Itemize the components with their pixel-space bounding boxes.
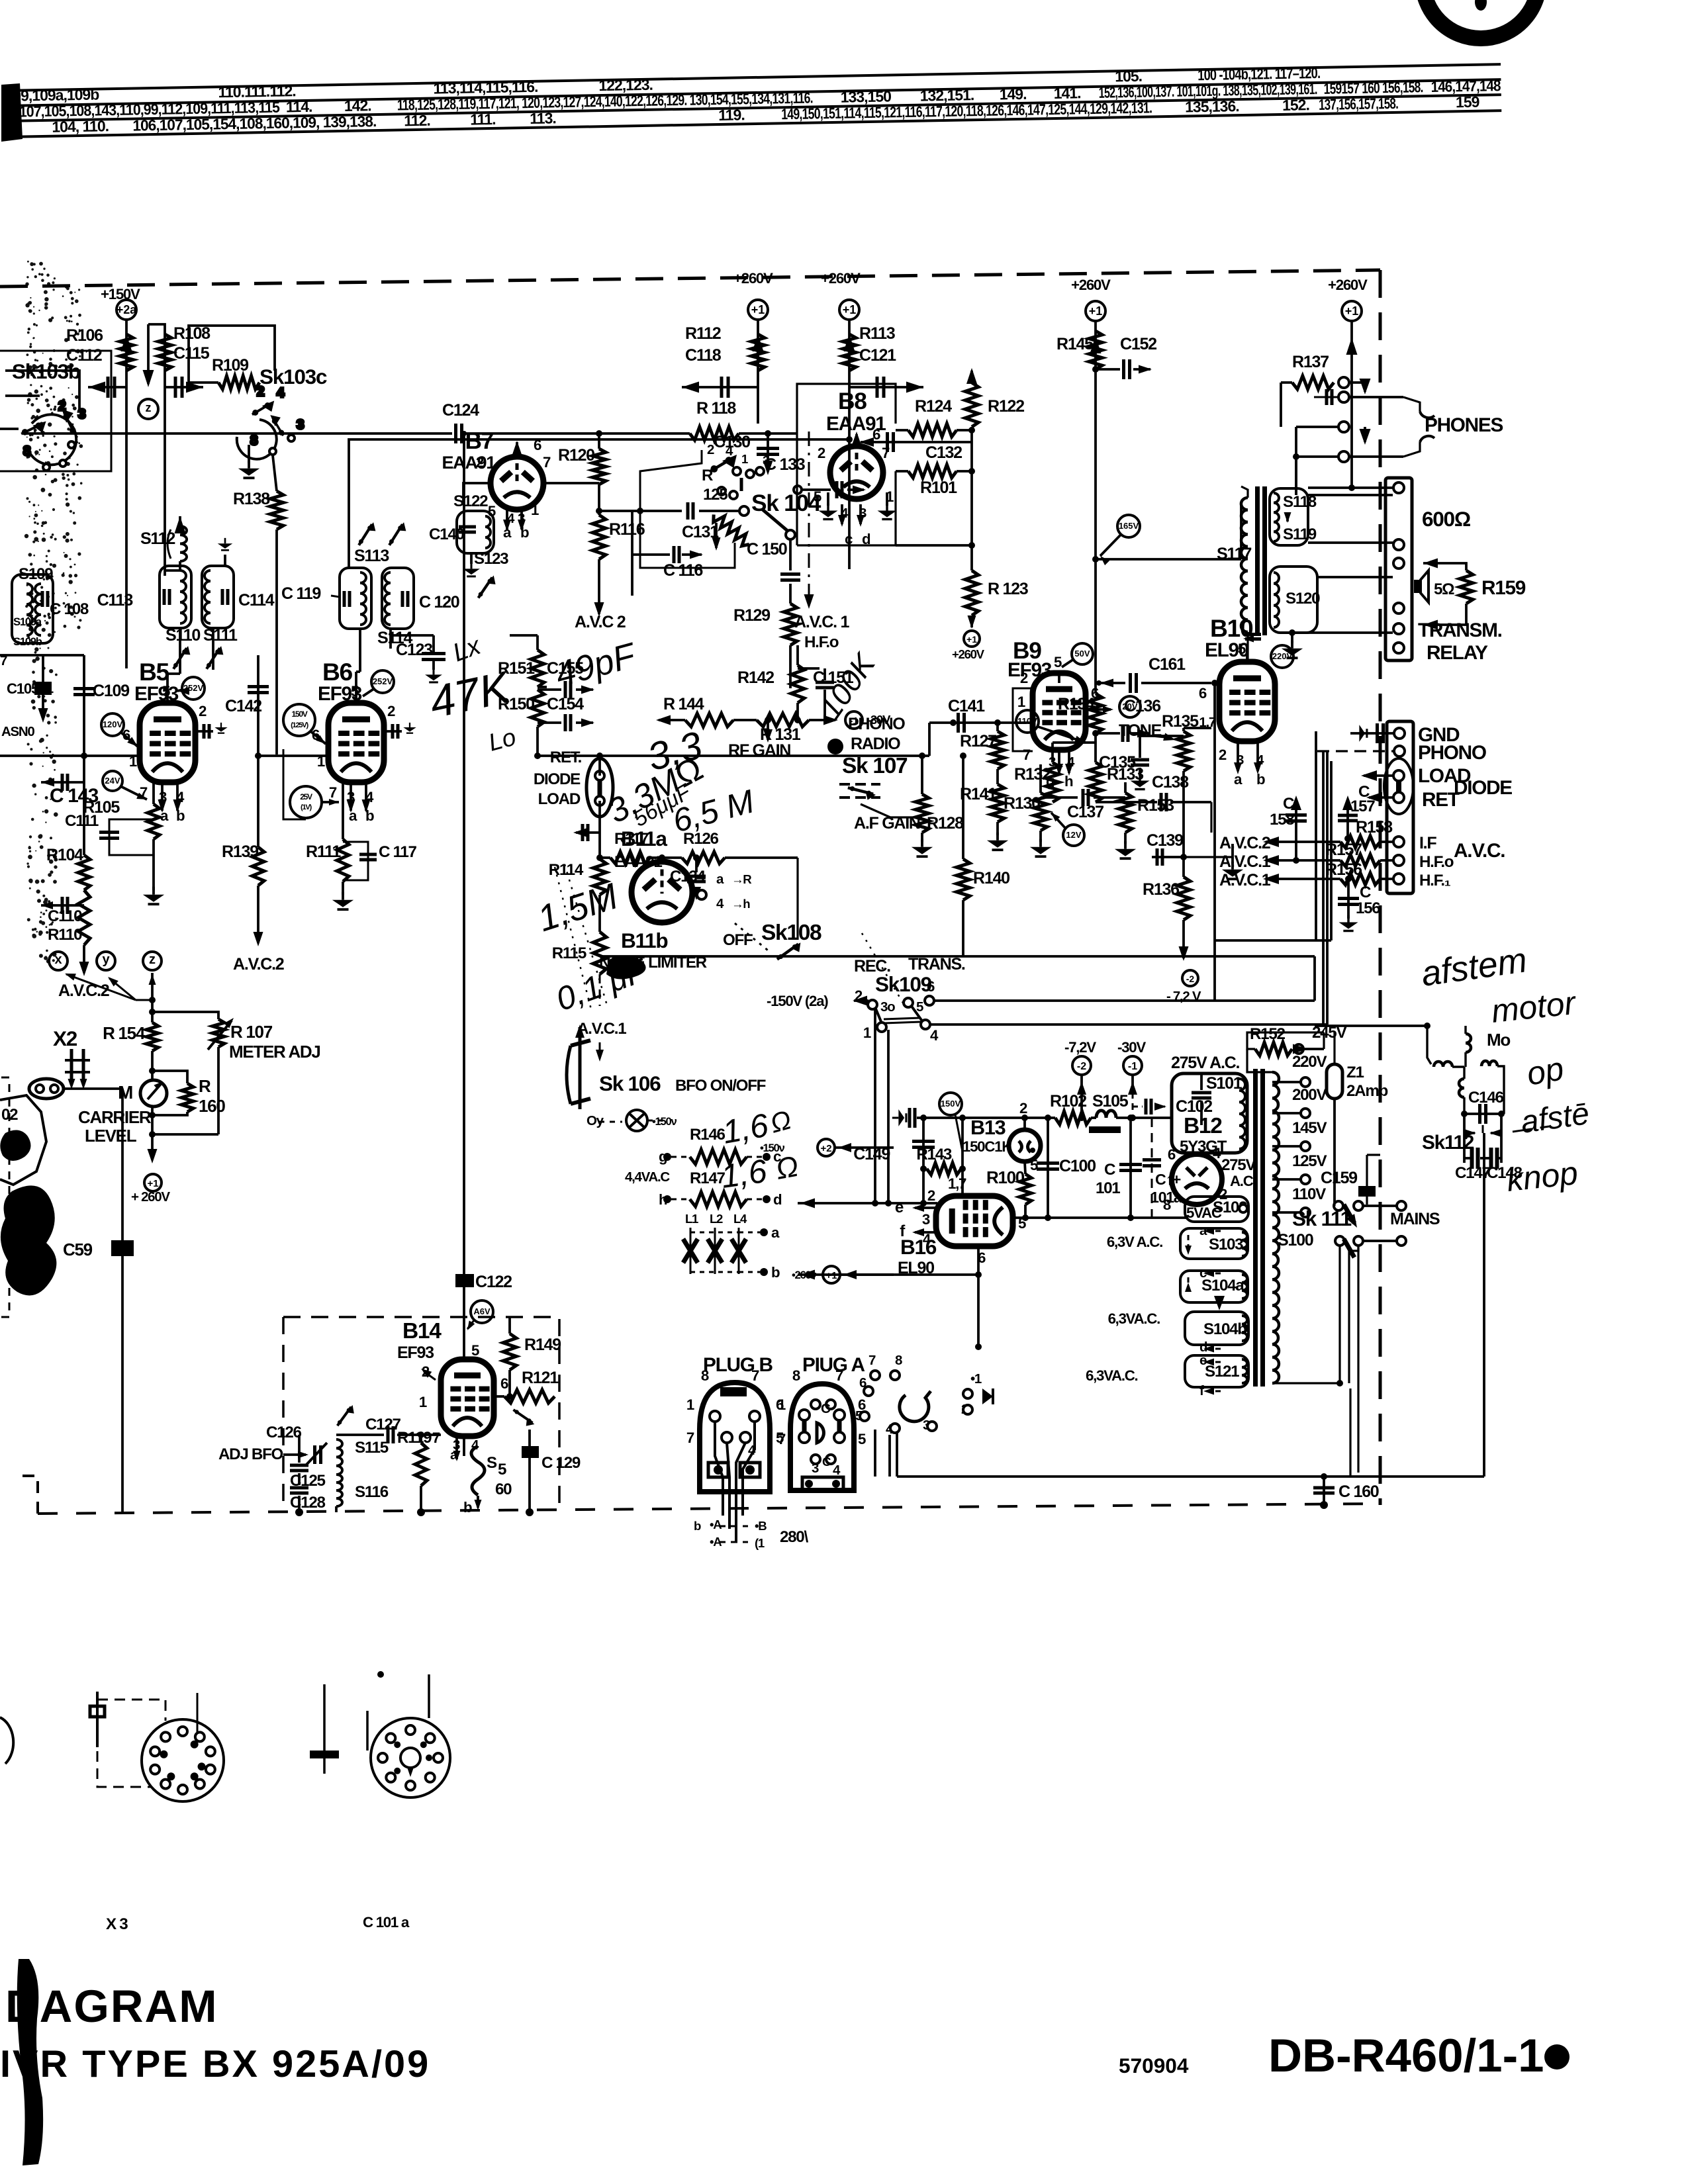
svg-text:MAINS: MAINS <box>1390 1210 1440 1228</box>
svg-text:2Amp: 2Amp <box>1346 1082 1388 1100</box>
svg-text:•150ν: •150ν <box>652 1115 677 1128</box>
svg-text:C 119: C 119 <box>281 584 321 603</box>
svg-text:6,3V A.C.: 6,3V A.C. <box>1107 1234 1162 1250</box>
svg-text:CARRIER: CARRIER <box>78 1107 152 1127</box>
voltage circle 120V at B5 <box>101 713 124 736</box>
svg-text:C126: C126 <box>266 1424 301 1441</box>
svg-text:8: 8 <box>1163 1197 1171 1213</box>
coupling cap at B10 plate <box>1245 633 1261 636</box>
svg-text:152.: 152. <box>1282 96 1309 114</box>
resistor R109 <box>218 376 259 389</box>
svg-text:S122: S122 <box>453 492 488 510</box>
chassis dashed border right <box>1379 270 1382 1505</box>
svg-text:C128: C128 <box>290 1494 325 1512</box>
resistor R141 <box>991 784 1004 822</box>
voltage circle 12V <box>1063 825 1084 846</box>
svg-text:150V: 150V <box>291 709 307 719</box>
pointer dash to Sk112 <box>1513 1126 1549 1132</box>
svg-text:EAA91: EAA91 <box>442 453 496 473</box>
svg-text:S100: S100 <box>1278 1231 1313 1250</box>
svg-text:+2: +2 <box>820 1143 831 1154</box>
resistor R106 <box>120 334 133 371</box>
svg-text:C146: C146 <box>1468 1089 1503 1107</box>
svg-text:M: M <box>118 1082 132 1103</box>
svg-text:C139: C139 <box>1147 831 1184 850</box>
svg-text:5: 5 <box>814 488 821 505</box>
svg-text:C 129: C 129 <box>541 1454 581 1472</box>
B16 screen wire down pin6 <box>977 1247 980 1275</box>
svg-text:6,3VA.C.: 6,3VA.C. <box>1108 1310 1160 1327</box>
svg-text:→R: →R <box>731 872 752 886</box>
B8 enclosure box <box>797 384 896 545</box>
Sk109 wire right top <box>933 999 1315 1002</box>
phones contact 4 <box>1338 451 1349 462</box>
svg-text:R152: R152 <box>1250 1025 1285 1043</box>
capacitor C115 <box>165 386 203 388</box>
chassis border bottom-left corner <box>20 1476 38 1514</box>
wire +150V rail down <box>125 320 128 668</box>
wire R150 to diode load row <box>536 727 539 756</box>
svg-text:1: 1 <box>1017 694 1025 710</box>
B11b side contacts <box>697 890 706 899</box>
B6 plate top wires <box>355 672 357 704</box>
svg-text:2: 2 <box>927 1187 935 1204</box>
svg-text:+260V: +260V <box>1071 277 1111 293</box>
svg-text:C127: C127 <box>365 1416 400 1433</box>
switch Sk104 contact cluster <box>710 449 795 539</box>
rotary switch Sk103b <box>21 398 85 471</box>
svg-text:C 160: C 160 <box>1338 1482 1379 1501</box>
ground cap left of supply rail <box>892 1109 906 1126</box>
svg-text:(1: (1 <box>755 1536 765 1550</box>
tube B13 stabilizer <box>1009 1130 1041 1161</box>
svg-text:C: C <box>1360 884 1371 901</box>
svg-text:8: 8 <box>250 433 258 448</box>
svg-text:TRANS.: TRANS. <box>908 955 965 974</box>
svg-text:Sk 106: Sk 106 <box>599 1071 661 1095</box>
S117 wires <box>1241 486 1248 498</box>
svg-text:(125V): (125V) <box>291 721 308 729</box>
svg-text:b: b <box>694 1519 701 1533</box>
capacitor C126 <box>290 1464 308 1467</box>
svg-text:S121: S121 <box>1205 1363 1239 1381</box>
secondary S104a box <box>1180 1271 1248 1302</box>
svg-text:-150V (2a): -150V (2a) <box>767 993 828 1009</box>
transformer bottom wire <box>1272 1382 1340 1384</box>
svg-text:C 120: C 120 <box>419 593 459 612</box>
svg-text:112.: 112. <box>404 112 430 130</box>
secondary S103 box <box>1180 1228 1248 1259</box>
tube B14 <box>441 1359 494 1436</box>
svg-text:A.V.C 2: A.V.C 2 <box>575 613 626 631</box>
capacitor C112 <box>88 386 126 388</box>
left artifacts smudge column <box>24 261 83 964</box>
svg-text:2: 2 <box>257 384 264 399</box>
svg-text:6: 6 <box>1199 685 1207 702</box>
svg-text:+1: +1 <box>751 303 765 316</box>
svg-text:5: 5 <box>1030 1157 1038 1173</box>
svg-text:A.V.C.2: A.V.C.2 <box>58 981 109 1000</box>
wire B7 pin7 to R116 <box>544 482 599 484</box>
svg-text:C123: C123 <box>396 641 433 659</box>
capacitor C127 symbol <box>336 1433 384 1436</box>
svg-text:R143: R143 <box>916 1146 951 1163</box>
Sk104 outline box <box>640 450 702 528</box>
svg-text:5: 5 <box>162 683 170 700</box>
svg-text:6: 6 <box>534 437 541 453</box>
plug A D mark <box>817 1423 823 1443</box>
svg-text:S115: S115 <box>355 1439 389 1457</box>
wire top of R151 to C124 line <box>536 635 539 650</box>
rotary switch Sk103c <box>237 384 304 459</box>
svg-text:d: d <box>773 1191 782 1208</box>
svg-text:-30V: -30V <box>1117 1039 1146 1056</box>
svg-text:159: 159 <box>1456 93 1479 111</box>
svg-text:S123: S123 <box>474 550 508 568</box>
plug B pins <box>710 1411 720 1422</box>
svg-text:4: 4 <box>930 1027 939 1044</box>
svg-text:C124: C124 <box>442 401 479 420</box>
svg-text:B12: B12 <box>1184 1114 1222 1138</box>
terminal -30V small <box>845 711 863 729</box>
B11 wires <box>661 858 663 862</box>
svg-text:B11a: B11a <box>621 827 667 850</box>
LOAD RET arrows <box>1364 774 1393 777</box>
relay terminal strip <box>1385 478 1412 660</box>
svg-text:C118: C118 <box>685 346 722 365</box>
small arc far left bottom <box>0 1717 13 1764</box>
S120 ground <box>1291 633 1293 643</box>
svg-text:DB-R460/1-1: DB-R460/1-1 <box>1268 2029 1544 2081</box>
LOAD RET oval <box>1384 758 1413 814</box>
svg-text:b: b <box>463 1499 472 1516</box>
wire R135 top to B10 grid <box>1182 728 1185 731</box>
switch arrow below S123 <box>478 573 497 600</box>
svg-text:B7: B7 <box>465 428 493 454</box>
terminal circle z <box>138 399 158 419</box>
svg-text:R106: R106 <box>66 326 103 345</box>
svg-text:A.C.: A.C. <box>1230 1173 1256 1189</box>
svg-text:h: h <box>1064 773 1073 790</box>
svg-text:c: c <box>845 531 853 547</box>
svg-text:LOAD: LOAD <box>538 790 581 808</box>
resistor R138 <box>270 491 283 529</box>
wire B6 plate to S113 can <box>359 629 361 672</box>
svg-text:B13: B13 <box>970 1116 1006 1139</box>
svg-text:d: d <box>862 531 870 547</box>
svg-text:220V: 220V <box>1292 1053 1327 1071</box>
wire long diode load line <box>538 754 929 757</box>
bottom long wire y2231 <box>897 1475 1484 1478</box>
svg-text:120V: 120V <box>103 719 123 729</box>
B6 cathode wire <box>342 782 344 839</box>
svg-text:+1: +1 <box>1089 304 1103 318</box>
AVC riser wires right <box>1315 731 1317 940</box>
svg-text:2: 2 <box>707 442 714 457</box>
svg-text:g: g <box>1046 773 1055 790</box>
power terminal +2a <box>117 300 136 320</box>
svg-text:R137: R137 <box>1292 353 1329 371</box>
svg-text:L4: L4 <box>733 1212 747 1226</box>
svg-text:101: 101 <box>1096 1179 1120 1197</box>
svg-text:R114: R114 <box>549 861 584 879</box>
svg-text:R130: R130 <box>1004 794 1040 813</box>
svg-text:2: 2 <box>818 445 825 461</box>
svg-text:252V: 252V <box>373 676 393 686</box>
svg-text:104, 110.: 104, 110. <box>52 117 109 136</box>
svg-text:C109: C109 <box>93 682 130 700</box>
arrow to -7.2V <box>1182 920 1185 958</box>
svg-text:-2: -2 <box>1077 1061 1086 1072</box>
ground under S122 box <box>470 553 473 564</box>
capacitor C117 <box>343 842 368 880</box>
svg-text:BFO ON/OFF: BFO ON/OFF <box>675 1077 766 1095</box>
svg-text:C142: C142 <box>225 697 261 715</box>
secondary S121 box <box>1185 1355 1248 1387</box>
plug B dome <box>700 1383 770 1492</box>
svg-text:110V: 110V <box>1292 1185 1326 1203</box>
plug B top slot <box>720 1387 747 1396</box>
voltage circle 46V <box>471 1300 493 1323</box>
svg-text:25V: 25V <box>300 792 312 801</box>
svg-text:C 143: C 143 <box>50 785 99 807</box>
svg-text:S103: S103 <box>1209 1236 1243 1253</box>
svg-text:METER ADJ: METER ADJ <box>229 1042 320 1062</box>
svg-text:TRANSM.: TRANSM. <box>1418 619 1502 641</box>
svg-text:7: 7 <box>835 1367 843 1384</box>
svg-text:1: 1 <box>531 502 539 518</box>
resistor R104 <box>78 855 90 890</box>
svg-text:A.V.C. 1: A.V.C. 1 <box>794 613 849 631</box>
R107 branch down <box>217 1047 220 1134</box>
Sk107 arm to AF gain <box>861 804 922 817</box>
terminal circle y <box>97 952 115 970</box>
resistor R110 zigzag <box>78 890 90 945</box>
fuse symbol left <box>96 1692 99 1747</box>
speaker wires <box>1423 563 1466 570</box>
svg-text:142.: 142. <box>344 97 371 114</box>
B9 cathode pins to g h arrows <box>1039 764 1042 773</box>
svg-text:R122: R122 <box>988 397 1024 416</box>
svg-text:125: 125 <box>703 486 727 504</box>
Sk104 to R129 <box>784 604 797 645</box>
svg-text:-1: -1 <box>1128 1061 1137 1072</box>
svg-text:6: 6 <box>500 1375 508 1392</box>
svg-text:•1: •1 <box>970 1371 982 1387</box>
resistor R132 <box>1046 762 1059 802</box>
resistor R113 <box>848 320 851 387</box>
svg-text:7: 7 <box>868 1353 876 1368</box>
svg-text:H.F.o: H.F.o <box>804 633 839 651</box>
tube B11 noise limiter <box>632 862 692 923</box>
svg-text:+1: +1 <box>147 1178 158 1189</box>
terminal circle z2 <box>143 952 162 970</box>
svg-text:3: 3 <box>1049 754 1056 770</box>
svg-text:156: 156 <box>1356 899 1380 917</box>
svg-text:C159: C159 <box>1321 1169 1358 1187</box>
strip terminal wires <box>1308 486 1393 489</box>
voltage circle 24V <box>103 771 122 791</box>
svg-text:2: 2 <box>1219 747 1227 763</box>
svg-text:C100: C100 <box>1059 1157 1096 1175</box>
svg-text:R153: R153 <box>1137 796 1174 815</box>
capacitor C118 <box>682 386 758 388</box>
svg-text:125V: 125V <box>1292 1152 1327 1170</box>
svg-text:R124: R124 <box>915 397 952 416</box>
power terminal +1 right1 <box>1086 301 1105 321</box>
svg-text:C 117: C 117 <box>379 843 417 861</box>
transformer secondary S101 box <box>1172 1073 1247 1153</box>
pickup plug oval <box>29 1079 64 1099</box>
svg-text:LEVEL: LEVEL <box>85 1126 137 1146</box>
svg-text:C114: C114 <box>238 591 275 610</box>
svg-text:C115: C115 <box>173 344 210 363</box>
svg-text:111.: 111. <box>470 111 496 128</box>
svg-text:7: 7 <box>543 454 551 471</box>
AVC2 arrow left column <box>83 945 85 973</box>
B10 pin arrows <box>1237 743 1239 771</box>
B5 screen cap to ground right <box>195 730 213 733</box>
svg-text:R127: R127 <box>960 732 996 751</box>
svg-text:R113: R113 <box>859 324 896 343</box>
svg-text:•A: •A <box>710 1518 722 1531</box>
svg-text:RET.: RET. <box>550 749 582 766</box>
svg-text:C135: C135 <box>1099 753 1136 772</box>
B5 pins 3 4 arrows <box>161 782 164 811</box>
svg-text:3: 3 <box>297 417 304 432</box>
ink dot blob <box>827 739 843 754</box>
svg-text:A.V.C.1: A.V.C.1 <box>1219 852 1271 871</box>
svg-text:R112: R112 <box>685 324 721 343</box>
crystal X2 symbol <box>70 1049 73 1084</box>
fuse bottom wire <box>1333 1099 1336 1205</box>
secondary S102 box <box>1185 1197 1248 1222</box>
phones contact 3 <box>1338 422 1349 432</box>
resistor R120 <box>598 433 600 449</box>
svg-text:S109a: S109a <box>13 615 42 628</box>
svg-text:B8: B8 <box>838 388 867 414</box>
B9 pin6 wire to 20V circle <box>1086 708 1111 711</box>
voltage circle 252V at B5 <box>182 677 205 700</box>
svg-text:→h: →h <box>731 897 750 911</box>
svg-text:R141: R141 <box>960 785 997 803</box>
B16 plate node wire <box>1013 1216 1188 1219</box>
svg-text:DIODE: DIODE <box>1454 777 1512 799</box>
wire R113 down to B7 area <box>848 387 851 569</box>
socket view right circle <box>371 1718 450 1797</box>
svg-text:7: 7 <box>882 445 890 461</box>
svg-text:1: 1 <box>419 1394 427 1410</box>
terminal circle x <box>49 952 68 970</box>
tube B7 <box>491 457 543 510</box>
svg-text:160: 160 <box>199 1096 225 1116</box>
svg-text:PIUG A: PIUG A <box>802 1354 865 1376</box>
phones contact 2 <box>1314 396 1338 398</box>
switch arrow above S115 <box>337 1403 355 1429</box>
resistor R149 <box>503 1334 516 1370</box>
motor left winding coil <box>1459 1079 1464 1097</box>
svg-text:C 116: C 116 <box>663 561 703 580</box>
svg-text:50V: 50V <box>1074 649 1090 659</box>
arrow and +260V under R123 <box>970 615 973 627</box>
svg-text:R100: R100 <box>986 1167 1025 1187</box>
svg-text:+260V: +260V <box>952 647 985 661</box>
svg-text:6: 6 <box>872 426 880 443</box>
speaker symbol 5ohm <box>1414 580 1421 593</box>
svg-text:280\: 280\ <box>780 1528 808 1546</box>
BFO bottom bus dots <box>295 1508 303 1516</box>
svg-text:RELAY: RELAY <box>1427 642 1488 664</box>
resistor R116 <box>592 515 606 559</box>
svg-text:S110: S110 <box>165 626 200 645</box>
svg-text:R140: R140 <box>973 869 1009 887</box>
right risers from Sk109 wires <box>1313 956 1316 1001</box>
long wire y655 with C124 <box>23 432 452 435</box>
svg-text:R108: R108 <box>173 324 211 343</box>
svg-text:5: 5 <box>1238 641 1246 657</box>
IF can C119 box <box>340 568 371 629</box>
svg-text:B5: B5 <box>139 658 169 686</box>
capacitor C121 <box>849 386 923 388</box>
svg-text:R132: R132 <box>1014 765 1051 784</box>
svg-text:24V: 24V <box>105 776 120 786</box>
Sk109 risers to B16 bus <box>874 1009 876 1203</box>
svg-text:12V: 12V <box>1066 830 1081 840</box>
dotted leader line near Sk108 <box>862 933 906 1007</box>
svg-text:+ 260V: + 260V <box>131 1189 170 1205</box>
B16 left bus wire <box>798 1202 937 1205</box>
B5 cathode resistor R105 <box>152 782 155 804</box>
svg-text:2: 2 <box>1020 670 1028 686</box>
switch contacts S110 S111 <box>173 645 191 671</box>
svg-text:(1V): (1V) <box>301 803 312 811</box>
svg-text:A.V.C.1: A.V.C.1 <box>1219 871 1271 889</box>
wire grid row B6 <box>258 754 328 757</box>
svg-text:S120: S120 <box>1286 590 1320 608</box>
svg-text:A.V.C.2: A.V.C.2 <box>233 955 284 974</box>
svg-text:ADJ BFO: ADJ BFO <box>218 1445 283 1463</box>
svg-text:150V: 150V <box>941 1099 961 1109</box>
plug A dome <box>790 1384 854 1490</box>
svg-text:A6V: A6V <box>473 1306 491 1316</box>
voltage circle 252V at B6 <box>371 670 394 693</box>
drawing number trailing dot <box>1544 2044 1570 2070</box>
svg-text:S111: S111 <box>203 626 238 645</box>
svg-text:3: 3 <box>812 1461 819 1476</box>
secondary S118 S119 box <box>1270 488 1308 545</box>
motor top coil <box>1466 1034 1471 1052</box>
B5 plate top wires <box>166 674 169 704</box>
wire AVC1 bottom arrow <box>599 974 601 1006</box>
svg-text:•150ν: •150ν <box>760 1142 784 1154</box>
resistor R133 <box>1089 762 1102 802</box>
pickup wire to C59 column <box>64 1087 122 1090</box>
left cut rounded box <box>12 574 53 643</box>
svg-text:C152: C152 <box>1120 335 1156 353</box>
B9 grid return box <box>1013 688 1033 751</box>
svg-text:X2: X2 <box>53 1026 77 1050</box>
svg-text:z: z <box>146 401 152 414</box>
arrow +260V meter <box>148 1149 158 1163</box>
svg-text:1: 1 <box>741 452 748 466</box>
svg-text:1: 1 <box>863 1024 871 1041</box>
svg-text:113.: 113. <box>530 109 556 127</box>
capacitor C129 <box>522 1446 539 1458</box>
R107 branch corner <box>152 1012 218 1019</box>
svg-text:C141: C141 <box>948 697 985 715</box>
tube B12 <box>1172 1154 1222 1205</box>
resistor R127 <box>991 731 1004 769</box>
